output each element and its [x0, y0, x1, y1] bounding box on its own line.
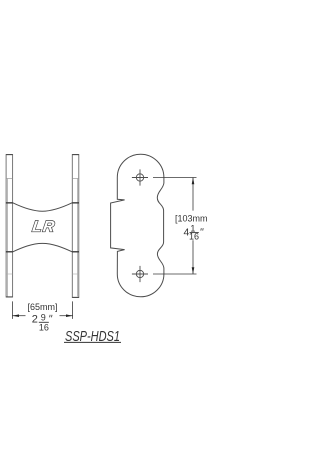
svg-text:16: 16	[39, 322, 49, 332]
right rail inner vertical line	[77, 179, 79, 297]
title underline	[64, 341, 121, 343]
103mm dimension line upper segment	[192, 178, 194, 211]
right rail tick y178	[72, 178, 79, 180]
bottom hole	[136, 270, 143, 277]
svg-text:LR: LR	[31, 219, 56, 236]
plate top edge curve	[6, 203, 79, 211]
left rail inner vertical line	[6, 179, 8, 297]
rail bottom caps	[6, 296, 13, 298]
left view: right rail	[72, 155, 79, 298]
65mm right arrow	[66, 314, 73, 317]
103mm extension line top	[153, 177, 197, 179]
rail top caps	[6, 154, 13, 156]
right rail tick y274	[72, 273, 79, 275]
bottom hole center mark vertical	[139, 266, 141, 282]
103mm dimension line lower segment	[192, 240, 194, 274]
103mm bottom arrow	[192, 267, 195, 274]
top hole	[136, 174, 143, 181]
65mm left arrow	[12, 314, 19, 317]
fraction bar	[190, 232, 199, 234]
fraction bar	[39, 321, 49, 323]
65mm dimension line right stub	[60, 315, 73, 317]
svg-text:16: 16	[189, 232, 199, 242]
plate bottom edge curve	[6, 243, 79, 251]
plate-rail junction ticks	[6, 202, 13, 204]
svg-text:2: 2	[32, 314, 38, 326]
inches mark	[49, 315, 52, 318]
left view: left rail	[6, 155, 13, 298]
svg-text:[65mm]: [65mm]	[27, 302, 57, 312]
svg-text:[103mm: [103mm	[175, 214, 208, 224]
svg-text:9: 9	[41, 312, 46, 322]
left rail tick y274	[6, 273, 13, 275]
top hole center mark horizontal	[132, 177, 148, 179]
inches mark	[200, 228, 203, 230]
top hole center mark vertical	[139, 169, 141, 185]
left rail tick y178	[6, 178, 13, 180]
103mm extension line bottom	[153, 273, 197, 275]
bottom hole center mark horizontal	[132, 273, 148, 275]
left 65mm extension line (left)	[11, 301, 13, 319]
65mm dimension line left stub	[12, 315, 25, 317]
left 65mm extension line (right)	[72, 301, 74, 319]
right view plate outline	[111, 154, 164, 297]
103mm top arrow	[192, 178, 195, 185]
